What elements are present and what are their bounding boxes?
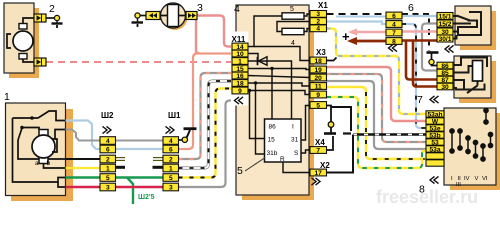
svg-text:3: 3	[106, 184, 110, 191]
pin 53	[426, 139, 444, 145]
wire comp3 left to ground node	[140, 15, 146, 17]
svg-text:3: 3	[197, 2, 203, 14]
wire: black X4-7 up to ground bar	[327, 136, 334, 150]
svg-text:5: 5	[237, 165, 243, 177]
wire: black stub Sh2-1 and Sh1-1	[116, 166, 126, 169]
ground near Sh1	[179, 139, 183, 141]
pin 4	[386, 21, 402, 28]
mark sw8 <<	[430, 176, 439, 183]
relay 5 white box	[265, 119, 302, 162]
svg-text:30/1: 30/1	[439, 36, 452, 43]
pin X1 4	[310, 25, 327, 32]
pin 30/1	[437, 35, 453, 42]
pin stubs ignition 6	[453, 15, 456, 17]
svg-text:3: 3	[169, 184, 173, 191]
wire: light blue with black dash pin4 down to column switch 53e	[402, 24, 426, 128]
svg-text:b: b	[47, 160, 51, 167]
ignition connector	[437, 13, 453, 43]
wire: gray X3 down to column switch 53a	[327, 81, 427, 149]
pin 1	[100, 164, 116, 172]
wire: black dashed pin6 to ground near ignition	[402, 14, 429, 51]
ground X3-5 node and bar	[328, 122, 334, 128]
svg-text:17: 17	[315, 170, 323, 177]
wire: black-white dashed to 53b	[353, 133, 426, 135]
pin 15/2	[437, 20, 453, 27]
pin 5	[163, 174, 179, 182]
X3 connector	[310, 57, 327, 109]
svg-text:1: 1	[106, 165, 110, 172]
wire: yellow-black Sh1-5 up to X11 pin 9	[179, 89, 233, 178]
svg-text:III: III	[456, 182, 461, 188]
svg-text:1: 1	[169, 165, 173, 172]
second contact	[22, 128, 39, 131]
wire: light blue X1-2 to midconnector pin 4	[327, 22, 387, 25]
svg-text:X3: X3	[316, 48, 326, 57]
svg-text:4: 4	[169, 138, 173, 145]
svg-text:16: 16	[236, 73, 244, 80]
pin 6	[100, 145, 116, 153]
mounting block 4 shadow	[242, 11, 314, 200]
interior relay S to X4-7	[301, 150, 310, 153]
wire: yellow-blue X1-4 down right to column switch 53ah	[327, 29, 427, 115]
svg-text:15/1: 15/1	[439, 13, 452, 20]
svg-text:2: 2	[106, 156, 110, 163]
wire: pink pin7 to ignition 30 with left arrow	[352, 31, 402, 34]
interior X11-9 to X3-9 and relay 15	[248, 91, 265, 139]
wire: black stub X3-18	[327, 58, 337, 61]
washer pump box 2	[4, 3, 34, 73]
X11 connector	[232, 43, 248, 95]
relay box 7 shadow	[459, 61, 496, 103]
pin 3	[100, 183, 116, 191]
wire: green Sh2-5 to Sh1-5 with branch down	[116, 176, 164, 178]
svg-text:2: 2	[49, 3, 55, 15]
interior relay 31 to X3-5	[301, 106, 310, 141]
pin X11 18	[232, 80, 248, 87]
wire: dashed pink washer pump 2 to X11 pin 1	[46, 61, 232, 63]
svg-text:Ш2: Ш2	[101, 111, 114, 120]
svg-text:4: 4	[291, 40, 295, 47]
wire: white-black Sh1-1 up to X11 pin 18	[179, 81, 233, 168]
svg-text:X11: X11	[232, 35, 246, 44]
X4 connector	[310, 147, 327, 155]
svg-text:4: 4	[392, 21, 396, 28]
mark ign <<	[445, 45, 454, 52]
column switch box 8	[444, 108, 496, 185]
pin 30	[437, 83, 453, 90]
pin 5	[310, 102, 327, 109]
pin X11 14	[232, 43, 248, 50]
switch8 connector	[426, 111, 444, 166]
pin 20	[310, 74, 327, 81]
contact box top and right	[331, 107, 351, 131]
relay 5 pointer line and label	[245, 157, 265, 171]
wire: gray Sh1-3 up to X11 pin 16	[179, 101, 237, 188]
wire: light blue under dashes to pin 6	[336, 16, 386, 18]
interior X11-15 to relay86 and X3-19	[248, 69, 272, 120]
contact plate	[343, 132, 351, 134]
comp3 ground node and symbol	[135, 13, 140, 18]
svg-text:7: 7	[392, 30, 396, 37]
wire: green branch to Sh2'5 label	[127, 178, 133, 205]
svg-text:I: I	[292, 124, 294, 131]
ground symbol comp2	[56, 21, 58, 23]
wire: brown pin8 to ignition 30/1, branch to relay 87/30, left arrow	[352, 40, 402, 43]
washer pump box 2 shadow	[9, 8, 39, 78]
svg-text:Ш1: Ш1	[168, 111, 181, 120]
svg-text:S: S	[294, 150, 299, 157]
pin stubs relay 7	[453, 65, 455, 67]
pin 19	[310, 66, 327, 73]
wire: light blue motor1 to Sh2 pin 6	[66, 121, 101, 150]
wiper motor box 1 shadow	[11, 109, 73, 201]
svg-text:18: 18	[236, 80, 244, 87]
column switch box 8 shadow	[450, 113, 500, 190]
svg-text:10: 10	[236, 51, 244, 58]
park contact top	[13, 117, 39, 119]
fuse 4 wiring	[277, 22, 310, 32]
svg-text:31: 31	[291, 137, 299, 144]
motor bottom to yellow out	[44, 164, 66, 168]
mark Sh1 >>	[166, 126, 175, 133]
wire: yellow-green X3-9 around bottom to column switch blank pin	[327, 97, 427, 168]
pin 7	[386, 29, 402, 36]
pin 4	[163, 137, 179, 145]
wire: salmon X3-19 down to column switch W	[327, 67, 427, 121]
motor 1 armature circle	[32, 135, 55, 158]
wire: brown relay 87 loop	[406, 41, 437, 80]
svg-text:11: 11	[315, 83, 322, 90]
pin 53a	[426, 146, 444, 152]
svg-text:5: 5	[290, 6, 294, 13]
wire: black dashed X1-3 to midconnector pin 6	[327, 13, 387, 15]
pin 2	[100, 155, 116, 163]
wire: black motor1 to Sh2 pin 2	[66, 158, 101, 160]
Sh1 connector	[163, 137, 179, 192]
relay box 7	[454, 56, 491, 98]
svg-text:7: 7	[417, 94, 423, 106]
bracket symbol	[52, 139, 57, 152]
comp2 ground wire, node	[46, 17, 55, 19]
pin X11 9	[232, 87, 248, 94]
pin X11 10	[232, 50, 248, 57]
wire: yellow motor1 to Sh2 pin 1	[66, 167, 101, 169]
mark rel7 <<	[430, 96, 439, 103]
pin 53e	[426, 125, 444, 131]
svg-text:R: R	[280, 156, 285, 163]
pin 11	[310, 83, 327, 90]
interior X11-16 to X3-20	[248, 76, 310, 78]
svg-text:7: 7	[316, 147, 320, 154]
wiper motor box 1	[6, 103, 66, 196]
svg-text:5: 5	[169, 175, 173, 182]
wire: gray-orange X3-20 down to column switch 53	[327, 74, 427, 142]
pin 1	[163, 164, 179, 172]
comp3 left plug	[146, 12, 160, 20]
wire: black X2-17 right and up	[327, 135, 354, 173]
washer motor 3 shadow	[163, 5, 188, 30]
diode D	[258, 57, 268, 65]
wire: yellow-black X3-11 down to column switch bottom pin	[327, 87, 427, 159]
svg-text:18: 18	[315, 58, 323, 65]
arrow marks	[103, 44, 454, 185]
svg-text:30: 30	[441, 84, 449, 91]
pin 30	[437, 28, 453, 35]
pin 6	[386, 12, 402, 19]
pin 53b	[426, 132, 444, 138]
svg-text:4: 4	[316, 26, 320, 33]
svg-text:15/2: 15/2	[439, 21, 452, 28]
svg-text:6: 6	[408, 2, 414, 14]
pin 3	[163, 183, 179, 191]
node below X3 on yellow	[330, 121, 332, 123]
motor 1 brushes	[39, 130, 48, 136]
wire: gray-orange Sh1-2 up to X11 pin 15	[179, 73, 233, 159]
diode line X11-1 to relay	[248, 61, 292, 119]
Sh2 connector	[100, 137, 116, 192]
svg-text:X2: X2	[320, 161, 330, 170]
fuse 5 wiring	[248, 16, 282, 47]
pin X1 2	[310, 18, 327, 25]
bracket	[7, 34, 11, 48]
svg-text:20: 20	[315, 75, 323, 82]
mark mid <<	[389, 44, 398, 51]
wire: light blue Sh2-6 to Sh1-6	[116, 148, 164, 150]
pin 7	[310, 147, 327, 154]
svg-text:15: 15	[268, 137, 276, 144]
comp2 upper plug	[34, 14, 46, 22]
pin blank	[426, 153, 444, 159]
pin X11 16	[232, 72, 248, 79]
svg-text:86: 86	[269, 124, 277, 131]
outer loop	[13, 118, 66, 182]
svg-text:Ш2'5: Ш2'5	[138, 194, 155, 201]
pin 6	[163, 145, 179, 153]
svg-text:4: 4	[106, 138, 110, 145]
ground near ignition 6	[427, 51, 439, 54]
pin blank	[426, 160, 444, 166]
pin 53ah	[426, 111, 444, 117]
wire: gray motor1 to Sh2 pin 4	[66, 130, 101, 141]
pin 87	[437, 76, 453, 83]
pin 9	[310, 91, 327, 98]
wire: red washer motor 3 to X11 pin 14	[196, 16, 232, 47]
mark X2 >>	[312, 178, 321, 185]
mark X11 <&lt;	[235, 97, 244, 104]
interior X11-18 to X3-11 and relay 31b	[248, 83, 265, 154]
svg-text:31b: 31b	[267, 150, 278, 157]
bracket to gray out	[55, 130, 66, 140]
pink arrowhead	[348, 28, 357, 35]
svg-text:X4: X4	[315, 138, 325, 147]
ignition switch box 6 shadow	[460, 11, 496, 50]
svg-text:6: 6	[392, 13, 396, 20]
interior h1 fuse5 to X3-18	[254, 47, 310, 61]
wire: gray Sh2-4 to Sh1-4	[116, 140, 164, 142]
interior relay R to X2-17	[283, 162, 310, 173]
wire: orange Sh1-6 up to X11 pin 10	[179, 54, 233, 150]
interior pin10 joins diode line	[248, 54, 258, 62]
X1 connector	[310, 11, 327, 33]
mounting block 4	[236, 5, 309, 195]
wire: red motor1 to Sh2 pin 3	[66, 186, 101, 188]
svg-text:X1: X1	[318, 1, 328, 10]
mark Sh2 >>	[103, 126, 112, 133]
pin 15/1	[437, 13, 453, 20]
svg-text:1: 1	[4, 91, 10, 103]
pin 17	[310, 169, 327, 176]
X2 connector	[310, 169, 327, 177]
fuse 5 body	[282, 13, 304, 19]
svg-text:2: 2	[169, 156, 173, 163]
wire: gray ignition 15/2 down to relay pin 85	[422, 24, 437, 71]
svg-text:a: a	[35, 160, 39, 167]
wire: double stub Sh2-2 right	[116, 158, 164, 161]
svg-text:9: 9	[238, 88, 242, 95]
wire: green motor1 through Sh2 pin5 area	[66, 176, 101, 178]
svg-text:9: 9	[316, 92, 320, 99]
svg-text:4: 4	[234, 3, 240, 15]
pin 2	[163, 155, 179, 163]
svg-text:1: 1	[238, 58, 242, 65]
comp3 right plug	[186, 12, 197, 20]
pin 5	[100, 174, 116, 182]
pin 86	[437, 62, 453, 69]
svg-text:V: V	[475, 176, 479, 182]
ignition switch box 6	[455, 6, 491, 45]
svg-text:19: 19	[315, 67, 323, 74]
X11 connector backing plate	[231, 32, 248, 106]
pin 8	[386, 38, 402, 45]
washer motor 3 circle	[161, 3, 186, 28]
svg-text:6: 6	[106, 146, 110, 153]
svg-text:5: 5	[316, 102, 320, 109]
relay7 connector	[437, 62, 453, 91]
wire: red Sh2-3 to Sh1-3	[116, 186, 164, 188]
pin 85	[437, 69, 453, 76]
pin 4	[100, 137, 116, 145]
pin X11 15	[232, 65, 248, 72]
mid connector 6478	[386, 12, 402, 45]
svg-text:VI: VI	[482, 176, 488, 182]
svg-text:8: 8	[419, 184, 425, 196]
svg-text:IV: IV	[464, 176, 470, 182]
pin 18	[310, 57, 327, 64]
wire: black X3-5 to ground and contact box	[327, 106, 332, 134]
pin X11 1	[232, 58, 248, 65]
svg-text:+: +	[342, 29, 350, 44]
svg-text:6: 6	[169, 146, 173, 153]
fuse 4 body	[282, 28, 304, 34]
svg-text:5: 5	[106, 175, 110, 182]
wire: light blue pin6 to ignition 15/1	[402, 15, 437, 17]
pin X1 3	[310, 11, 327, 18]
pin W	[426, 118, 444, 124]
wire: brown branch down to relay 30	[413, 41, 437, 87]
wire: red branch comp3 down to X11 pin 10	[196, 16, 199, 54]
comp2 lower plug	[34, 58, 46, 66]
